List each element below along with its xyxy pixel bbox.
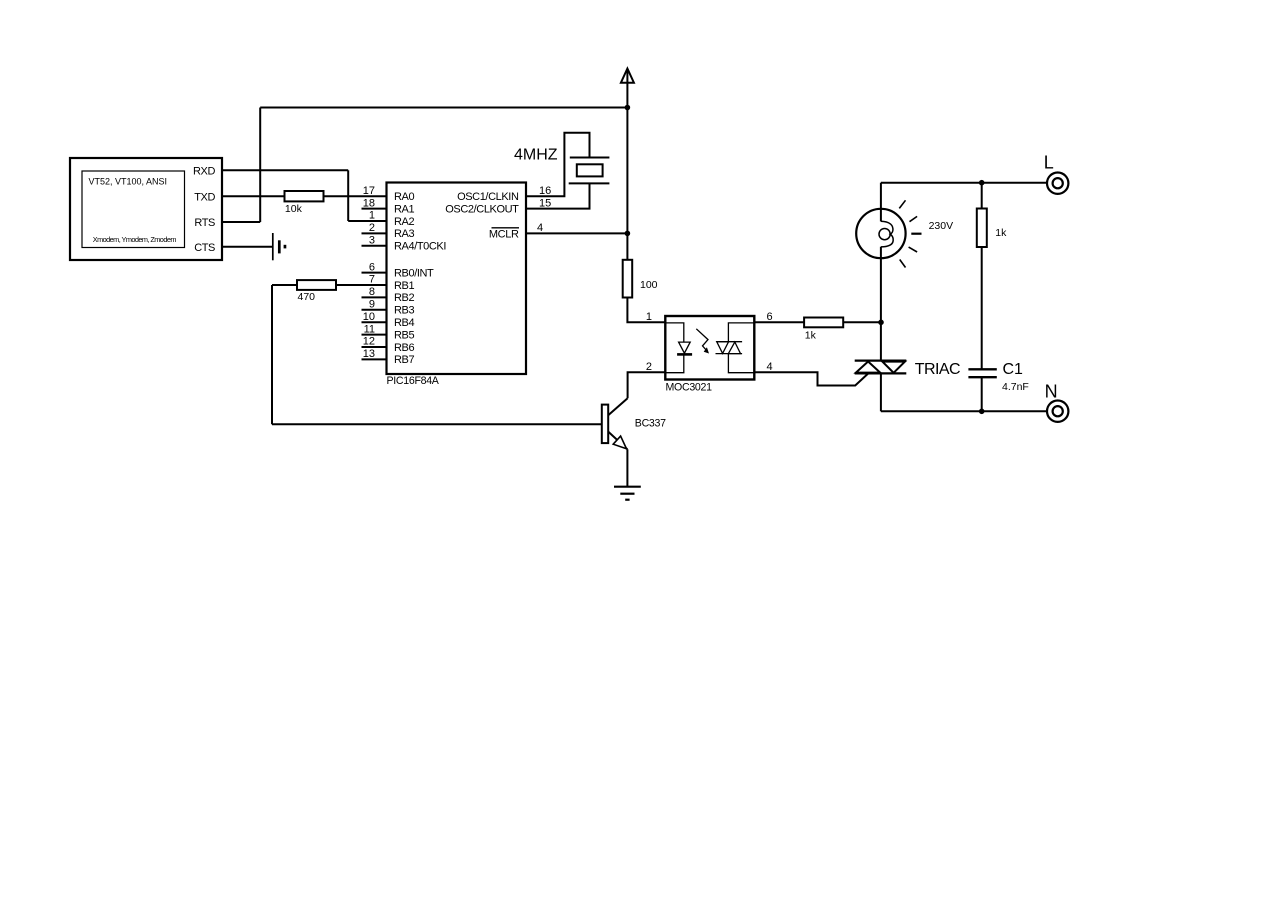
lamp LA1 circle [856,209,905,258]
wire RB1 to 470 [336,284,387,286]
svg-text:MOC3021: MOC3021 [666,381,713,393]
svg-text:9: 9 [369,299,375,311]
wire RTS vertical [259,108,261,223]
crystal X1 top plate [570,157,610,159]
optocoupler U3 MOC3021 body [665,316,754,380]
capacitor C1 bottom plate [968,376,996,378]
wire top rail right [881,182,1047,184]
wire OSC1 pin16 [526,133,590,197]
opto LED cathode bar [677,353,692,356]
ground GND bar3 [625,499,629,501]
resistor 10k [285,191,324,201]
transistor collector lead [608,398,627,415]
wire OSC2 pin15 [526,183,590,208]
pin stub 6 RB0 [362,272,387,274]
svg-text:17: 17 [363,185,375,197]
wire VCC rail down [626,108,628,260]
svg-text:7: 7 [369,274,375,286]
svg-text:RA2: RA2 [394,216,414,228]
opto triac right triangle [728,342,740,354]
crystal X1 bottom plate [569,182,610,184]
wire resistor to RA0 [324,195,387,197]
svg-text:18: 18 [363,197,375,209]
opto triac bottom bar [716,353,743,355]
svg-text:15: 15 [539,197,551,209]
svg-text:OSC2/CLKOUT: OSC2/CLKOUT [445,203,519,215]
wire lamp bottom [880,247,882,361]
TRIAC top bar [855,360,907,362]
svg-text:RA3: RA3 [394,228,414,240]
svg-text:RA1: RA1 [394,203,414,215]
svg-text:BC337: BC337 [635,418,666,430]
pin stub 13 RB7 [362,358,387,360]
wire RTS horizontal [222,221,260,223]
pin stub 2 RA3 [362,232,387,234]
wire 1k to triac rail [843,321,881,323]
resistor 470 [297,280,336,290]
svg-text:230V: 230V [929,220,954,232]
svg-text:2: 2 [369,222,375,234]
antenna stub CTS long plate [272,233,274,260]
antenna stub CTS dot [284,245,287,249]
power VCC arrow [621,69,634,83]
svg-text:RB4: RB4 [394,317,414,329]
wire RA2 [348,220,386,222]
terminal N outer [1047,401,1068,422]
svg-text:C1: C1 [1003,361,1024,378]
transistor Q1 BC337 body bar [602,405,608,444]
terminal box U2 [70,158,222,260]
svg-text:TRIAC: TRIAC [915,361,960,378]
svg-text:RA4/T0CKI: RA4/T0CKI [394,241,446,253]
MCLR overline [492,227,520,229]
capacitor C1 top plate [968,368,996,370]
svg-text:TXD: TXD [194,191,215,203]
wire TXD to resistor [222,195,285,197]
svg-text:4MHZ: 4MHZ [514,146,558,163]
lamp ray 4 [909,247,918,252]
pin stub 11 RB5 [362,334,387,336]
lamp filament upper arc [881,221,893,247]
svg-text:N: N [1045,381,1058,401]
TRIAC bottom bar [855,372,907,374]
terminal L inner [1053,178,1063,188]
svg-text:3: 3 [369,235,375,247]
junction dot top rail [625,105,631,111]
opto triac left triangle [717,342,729,354]
lamp ray 3 [911,233,921,235]
opto light arrowhead [704,347,709,353]
pin stub 8 RB2 [362,296,387,298]
terminal L outer [1047,173,1068,194]
wire CTS [222,246,272,248]
resistor 1k snubber [977,209,987,248]
wire opto pin6 to 1k [754,321,804,323]
resistor 100 [623,260,633,298]
svg-text:RA0: RA0 [394,191,414,203]
transistor emitter lead [608,432,627,450]
svg-text:100: 100 [640,279,658,291]
wire C1 down [981,377,983,411]
svg-text:PIC16F84A: PIC16F84A [387,375,440,387]
opto triac top bar [717,341,743,343]
wire left vertical to base row [271,285,273,424]
wire triac bottom [880,373,882,411]
IC U1 PIC16F84A body [387,183,527,375]
svg-text:VT52, VT100, ANSI: VT52, VT100, ANSI [89,177,168,187]
svg-text:Xmodem, Ymodem, Zmodem: Xmodem, Ymodem, Zmodem [93,235,177,244]
wire bottom rail [881,410,1047,412]
junction dot top right [979,180,985,186]
wire opto pin2 [628,372,666,398]
junction dot bottom right [979,409,985,415]
svg-text:8: 8 [369,286,375,298]
svg-text:1k: 1k [995,227,1007,239]
svg-text:L: L [1044,152,1054,172]
ground GND bar2 [620,493,634,495]
wire emitter down [626,449,628,486]
svg-text:CTS: CTS [194,242,215,254]
pin stub 9 RB3 [362,309,387,311]
junction dot triac rail [878,320,884,326]
opto LED anode lead [665,323,684,342]
pin stub 3 RA4 [362,245,387,247]
svg-text:13: 13 [363,348,375,360]
junction dot MCLR [625,231,631,237]
svg-text:1: 1 [646,311,652,323]
wire lamp top [880,183,882,222]
svg-text:10k: 10k [285,203,303,215]
TRIAC right triangle [882,362,905,373]
lamp ray 5 [900,260,906,268]
opto LED cathode lead [665,356,684,373]
svg-text:6: 6 [369,261,375,273]
crystal X1 body [577,164,603,176]
wire top rail [260,107,627,109]
terminal inner screen box [82,171,185,248]
svg-text:RB5: RB5 [394,329,414,341]
wire 1k to C1 [981,247,983,369]
opto light arrow [696,329,708,351]
lamp ray 1 [899,200,905,208]
svg-text:12: 12 [363,336,375,348]
svg-text:16: 16 [539,185,551,197]
opto triac upper lead [728,323,754,342]
svg-text:4.7nF: 4.7nF [1002,381,1029,393]
svg-text:10: 10 [363,311,375,323]
lamp filament loop [879,229,890,240]
wire RXD vertical to RA2 [347,170,349,221]
opto triac lower lead [728,354,754,373]
svg-text:RB0/INT: RB0/INT [394,267,434,279]
terminal N inner [1053,406,1063,416]
svg-text:RTS: RTS [194,217,215,229]
svg-text:RB1: RB1 [394,280,414,292]
pin stub 10 RB4 [362,321,387,323]
transistor emitter arrowhead [613,436,626,449]
wire opto pin4 to gate [754,372,868,385]
svg-text:RXD: RXD [193,166,215,178]
svg-text:1k: 1k [805,330,817,342]
lamp ray 2 [910,216,918,221]
svg-text:MCLR: MCLR [489,228,519,240]
ground GND bar1 [614,486,641,488]
opto LED D1 triangle [679,342,691,353]
wire 470 to corner [272,284,297,286]
svg-text:11: 11 [364,323,375,335]
svg-text:RB2: RB2 [394,292,414,304]
resistor 1k gate [804,318,843,328]
antenna stub CTS short plate [278,240,281,253]
TRIAC left triangle [856,362,880,373]
wire RXD horizontal [222,169,348,171]
wire 1k top [981,183,983,209]
wire rail to opto pin1 [627,298,665,323]
wire VCC stem [626,70,628,108]
svg-text:1: 1 [369,210,375,222]
svg-text:OSC1/CLKIN: OSC1/CLKIN [457,191,519,203]
wire base horizontal [272,423,602,425]
pin stub 12 RB6 [362,346,387,348]
svg-text:RB6: RB6 [394,342,414,354]
pin stub 18 RA1 [362,208,387,210]
svg-text:RB7: RB7 [394,354,414,366]
wire MCLR pin4 [526,232,627,234]
svg-text:RB3: RB3 [394,305,414,317]
svg-text:470: 470 [298,291,316,303]
